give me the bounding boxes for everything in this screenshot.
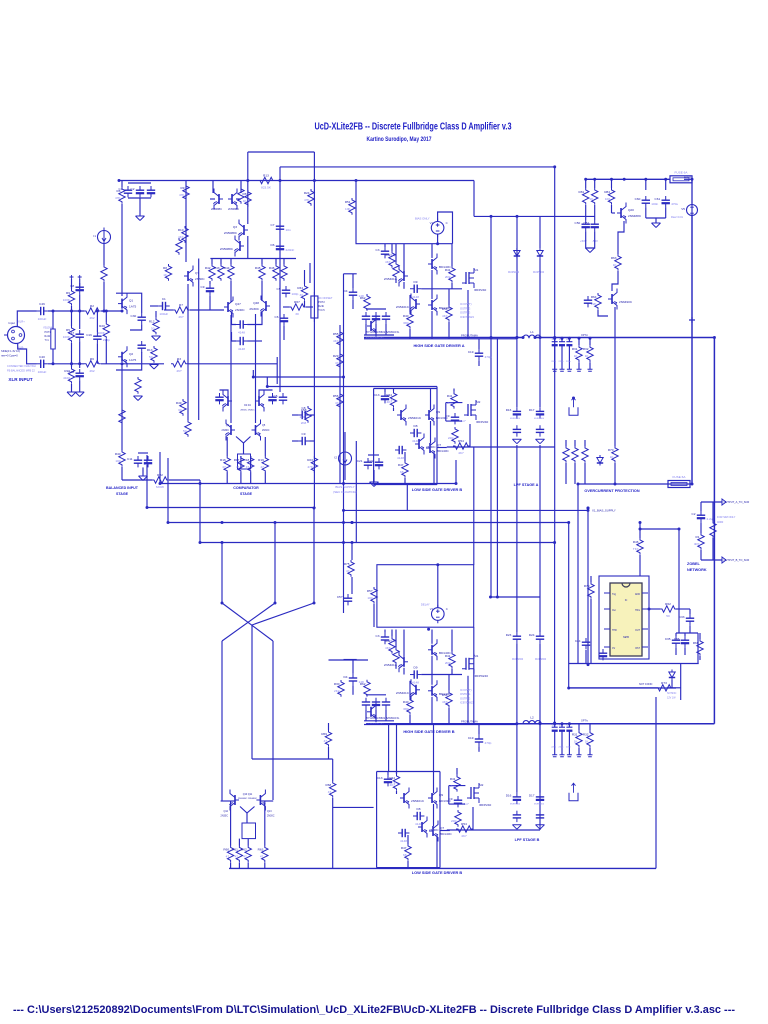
svg-text:R47: R47 (398, 463, 404, 467)
svg-text:47: 47 (243, 855, 247, 859)
svg-text:R54: R54 (461, 822, 467, 826)
svg-text:R68: R68 (326, 783, 332, 787)
svg-text:STAGE: STAGE (240, 492, 253, 496)
svg-text:2N6490C: 2N6490C (619, 300, 633, 304)
svg-text:V5: V5 (681, 207, 685, 211)
svg-text:IRFP240: IRFP240 (474, 288, 486, 292)
svg-text:R41: R41 (450, 777, 456, 781)
svg-text:R54: R54 (458, 439, 464, 443)
svg-text:40R0: 40R0 (717, 520, 724, 524)
svg-text:2N30C: 2N30C (267, 815, 275, 818)
svg-text:LPF STAGE A: LPF STAGE A (514, 483, 539, 487)
svg-text:R17: R17 (234, 458, 240, 462)
svg-text:MURS160: MURS160 (510, 418, 521, 420)
svg-text:R54: R54 (442, 693, 448, 697)
svg-text:100: 100 (367, 596, 372, 600)
svg-text:2N5088C: 2N5088C (220, 247, 234, 251)
svg-text:C: C (446, 607, 448, 611)
svg-text:IRFP240: IRFP240 (479, 803, 491, 807)
svg-text:47: 47 (328, 790, 332, 794)
svg-text:DELAY: DELAY (421, 603, 430, 607)
svg-text:M2: M2 (476, 400, 481, 404)
svg-text:R46: R46 (269, 266, 275, 270)
svg-text:2R2: 2R2 (447, 401, 453, 405)
svg-text:L1: L1 (530, 330, 534, 334)
svg-text:C3: C3 (376, 248, 380, 252)
svg-text:R6: R6 (90, 357, 94, 361)
svg-text:R13: R13 (147, 348, 153, 352)
svg-text:NETWORK: NETWORK (687, 568, 707, 572)
svg-text:2N5088C: 2N5088C (211, 207, 222, 211)
svg-text:R8: R8 (243, 192, 247, 196)
svg-text:100uF: 100uF (159, 312, 168, 316)
svg-text:MURS160: MURS160 (510, 804, 521, 806)
svg-text:OUTPUT_A_TO_SCR: OUTPUT_A_TO_SCR (724, 500, 750, 504)
svg-text:470u: 470u (671, 202, 678, 206)
svg-text:Fuse1: Fuse1 (684, 175, 692, 179)
svg-text:4148: 4148 (397, 456, 404, 460)
svg-text:L2: L2 (530, 716, 534, 720)
svg-text:R79: R79 (584, 584, 590, 588)
svg-text:100: 100 (605, 197, 610, 201)
svg-text:47: 47 (234, 855, 238, 859)
svg-text:YELENA: YELENA (43, 327, 53, 330)
svg-text:2R2: 2R2 (445, 275, 451, 279)
svg-text:2N5401C: 2N5401C (396, 305, 410, 309)
svg-text:R42: R42 (385, 639, 391, 643)
svg-text:Q2: Q2 (129, 352, 133, 356)
svg-text:2N5401C: 2N5401C (411, 799, 425, 803)
svg-text:R40: R40 (403, 700, 409, 704)
svg-text:(SEC FLOATING): (SEC FLOATING) (333, 490, 357, 494)
svg-text:2N50C: 2N50C (195, 277, 205, 281)
svg-text:4148: 4148 (238, 331, 245, 335)
svg-text:R62: R62 (241, 848, 247, 852)
svg-text:UcD-XLite2FB -- Discrete Fullb: UcD-XLite2FB -- Discrete Fullbridge Clas… (315, 121, 512, 133)
svg-text:C21: C21 (357, 459, 363, 463)
svg-text:220n: 220n (551, 361, 557, 363)
svg-text:4K7: 4K7 (333, 339, 339, 343)
svg-text:OPT-b: OPT-b (581, 720, 589, 723)
svg-text:BD140C: BD140C (437, 449, 449, 453)
svg-text:220n: 220n (566, 747, 572, 749)
svg-text:MURS360: MURS360 (535, 658, 547, 661)
svg-text:100K: 100K (63, 298, 71, 302)
svg-text:R62: R62 (360, 682, 366, 686)
svg-text:FB BALANCED MFB 22: FB BALANCED MFB 22 (7, 369, 35, 373)
svg-text:CV: CV (612, 648, 616, 650)
svg-text:R42: R42 (205, 266, 211, 270)
svg-text:100p: 100p (292, 292, 299, 296)
svg-text:C13: C13 (374, 393, 380, 397)
svg-text:Rser=0.01: Rser=0.01 (671, 215, 684, 219)
svg-text:Q12: Q12 (223, 810, 228, 813)
svg-text:R10: R10 (178, 228, 184, 232)
svg-text:4148: 4148 (412, 439, 419, 443)
svg-text:PROPUTAMA: PROPUTAMA (461, 334, 478, 338)
svg-text:HIGH SIDE GATE DRIVER B: HIGH SIDE GATE DRIVER B (403, 729, 454, 734)
svg-text:R8: R8 (163, 266, 167, 270)
svg-text:SCATRAP4.3V: SCATRAP4.3V (366, 722, 384, 726)
svg-text:OUT: OUT (635, 630, 640, 632)
svg-text:220n: 220n (566, 361, 572, 363)
svg-text:2R2: 2R2 (445, 661, 451, 665)
svg-text:C48: C48 (69, 370, 75, 374)
svg-text:Q13: Q13 (267, 810, 272, 813)
svg-text:OSTRIG: OSTRIG (460, 306, 470, 310)
svg-text:V1: V1 (430, 221, 434, 225)
svg-text:D17: D17 (529, 408, 535, 412)
svg-text:D24: D24 (529, 633, 535, 637)
svg-text:2N5088C 2N5088C: 2N5088C 2N5088C (238, 798, 258, 800)
svg-text:462: 462 (89, 369, 94, 373)
svg-text:50: 50 (666, 614, 670, 618)
svg-text:50: 50 (183, 429, 187, 433)
svg-text:MURS160: MURS160 (534, 418, 545, 420)
svg-text:C19: C19 (468, 736, 474, 740)
svg-text:D4 D4: D4 D4 (244, 405, 251, 407)
svg-text:47: 47 (346, 569, 350, 573)
svg-text:823.5K: 823.5K (261, 186, 272, 190)
svg-text:100K: 100K (63, 335, 71, 339)
svg-text:C8: C8 (302, 406, 306, 410)
svg-text:R73: R73 (661, 681, 667, 685)
svg-text:2N30C: 2N30C (262, 429, 270, 432)
svg-text:R44: R44 (386, 393, 392, 397)
svg-text:10K: 10K (345, 207, 351, 211)
svg-text:D16: D16 (506, 408, 512, 412)
svg-text:2N30C: 2N30C (235, 308, 245, 312)
svg-text:R45: R45 (255, 266, 261, 270)
svg-text:C51: C51 (584, 221, 590, 225)
svg-text:30: 30 (300, 293, 304, 297)
svg-text:220n: 220n (559, 361, 565, 363)
svg-text:C3: C3 (376, 634, 380, 638)
svg-text:D4: D4 (344, 675, 348, 679)
svg-text:100K: 100K (98, 331, 106, 335)
svg-text:R64: R64 (591, 295, 597, 299)
svg-text:R41: R41 (447, 394, 453, 398)
svg-text:R63: R63 (611, 256, 617, 260)
svg-text:4R7: 4R7 (694, 542, 700, 546)
svg-text:C1: C1 (162, 297, 166, 301)
svg-text:68: 68 (400, 470, 404, 474)
svg-text:470p: 470p (485, 355, 492, 359)
svg-text:47: 47 (260, 465, 264, 469)
svg-text:4K7: 4K7 (385, 646, 391, 650)
svg-text:PROPUTAMA: PROPUTAMA (461, 719, 478, 723)
svg-text:R18: R18 (244, 458, 250, 462)
svg-text:SOT23C: SOT23C (667, 692, 677, 695)
svg-text:4K7: 4K7 (442, 314, 448, 318)
svg-text:OPT-b: OPT-b (581, 334, 589, 337)
svg-text:R40: R40 (403, 314, 409, 318)
svg-text:470p: 470p (485, 741, 492, 745)
svg-text:2N30C: 2N30C (249, 307, 259, 311)
svg-text:NOT CONN: NOT CONN (639, 683, 652, 686)
svg-text:R55: R55 (333, 332, 339, 336)
svg-text:R60: R60 (223, 848, 229, 852)
svg-text:R34: R34 (297, 286, 303, 290)
svg-text:POT2: POT2 (318, 301, 325, 304)
svg-text:100uF: 100uF (38, 370, 47, 374)
svg-text:R84: R84 (604, 190, 610, 194)
svg-text:D6: D6 (271, 243, 275, 247)
svg-text:Q7: Q7 (437, 443, 441, 447)
svg-text:Q10 Q11: Q10 Q11 (243, 793, 253, 796)
svg-text:R12: R12 (149, 320, 155, 324)
svg-text:Rv4b: Rv4b (45, 335, 51, 338)
svg-text:OSTRIG: OSTRIG (460, 692, 470, 696)
svg-text:Q9: Q9 (436, 410, 440, 414)
svg-text:30: 30 (295, 312, 299, 316)
svg-text:220n: 220n (551, 747, 557, 749)
svg-text:R19: R19 (258, 458, 264, 462)
svg-text:12V 1W: 12V 1W (667, 697, 676, 700)
svg-text:4K7: 4K7 (461, 834, 467, 838)
svg-text:220n: 220n (559, 747, 565, 749)
svg-text:2N5401C: 2N5401C (396, 691, 410, 695)
svg-text:XLR+: XLR+ (18, 320, 25, 324)
svg-text:R63: R63 (258, 848, 264, 852)
svg-text:R70: R70 (608, 448, 614, 452)
svg-text:CONNECTED XLR2 WH: CONNECTED XLR2 WH (7, 364, 36, 368)
svg-text:Out: Out (612, 609, 616, 612)
svg-text:IC=OV(T): IC=OV(T) (460, 688, 472, 692)
svg-text:OSTRIG: OSTRIG (460, 311, 470, 315)
svg-text:Q47: Q47 (235, 302, 241, 306)
svg-text:Q9: Q9 (439, 793, 443, 797)
svg-text:R40: R40 (115, 452, 121, 456)
svg-text:2N5088C: 2N5088C (228, 207, 239, 211)
svg-text:RST: RST (635, 648, 640, 650)
svg-text:MURS160: MURS160 (534, 804, 545, 806)
svg-text:C1: C1 (119, 187, 123, 191)
svg-text:Q7: Q7 (440, 826, 444, 830)
svg-text:R32: R32 (583, 347, 589, 351)
svg-text:R1: R1 (696, 535, 700, 539)
svg-text:Q3: Q3 (233, 225, 237, 229)
svg-text:2N5401C: 2N5401C (384, 663, 398, 667)
svg-text:GND: GND (635, 594, 640, 596)
svg-text:22R: 22R (448, 436, 454, 440)
svg-text:680: 680 (403, 321, 408, 325)
svg-text:R81: R81 (579, 190, 585, 194)
svg-text:R43: R43 (214, 266, 220, 270)
svg-text:680: 680 (403, 707, 408, 711)
svg-text:FOR SIM ONLY: FOR SIM ONLY (717, 515, 736, 519)
svg-text:R56: R56 (333, 394, 339, 398)
svg-text:BYV26C 1N5819 BZX84C15L: BYV26C 1N5819 BZX84C15L (366, 717, 400, 720)
svg-text:C9: C9 (446, 414, 450, 418)
svg-text:--- C:\Users\212520892\Docume: --- C:\Users\212520892\Documents\From D\… (13, 1004, 735, 1016)
svg-text:ZOBEL: ZOBEL (687, 562, 701, 566)
svg-text:R24: R24 (304, 191, 310, 195)
svg-text:IC97/03923: IC97/03923 (460, 315, 474, 319)
svg-text:C35: C35 (665, 637, 671, 641)
svg-text:R67: R67 (294, 300, 300, 304)
svg-text:XLR INPUT: XLR INPUT (8, 377, 32, 382)
svg-text:10n: 10n (286, 228, 291, 232)
svg-text:BIAS ONLY: BIAS ONLY (415, 216, 430, 220)
svg-text:M2: M2 (479, 783, 484, 787)
svg-text:C5: C5 (277, 287, 281, 291)
svg-text:47: 47 (335, 361, 339, 365)
svg-text:22R: 22R (451, 819, 457, 823)
svg-text:R16: R16 (220, 458, 226, 462)
svg-text:R49: R49 (176, 401, 182, 405)
svg-text:R44: R44 (224, 266, 230, 270)
svg-text:R29: R29 (333, 354, 339, 358)
svg-text:C7: C7 (271, 223, 275, 227)
svg-text:C9: C9 (449, 797, 453, 801)
svg-text:100: 100 (115, 459, 120, 463)
svg-text:2N5401C: 2N5401C (408, 416, 422, 420)
svg-text:D9: D9 (414, 666, 418, 670)
svg-text:R42: R42 (385, 253, 391, 257)
svg-text:2N5088C: 2N5088C (224, 231, 238, 235)
svg-text:R54: R54 (442, 307, 448, 311)
svg-text:POT1: POT1 (45, 331, 52, 334)
svg-text:Q20: Q20 (628, 208, 634, 212)
svg-text:IC: IC (625, 599, 628, 602)
svg-text:R13: R13 (263, 174, 269, 178)
svg-text:2N30C: 2N30C (221, 815, 229, 818)
svg-text:220nF: 220nF (286, 248, 295, 252)
svg-text:D16: D16 (506, 794, 512, 798)
svg-text:D17: D17 (529, 794, 535, 798)
svg-text:47: 47 (246, 465, 250, 469)
svg-text:2K8: 2K8 (301, 421, 307, 425)
svg-text:IRFP240: IRFP240 (476, 420, 488, 424)
svg-text:C5?: C5? (337, 595, 343, 599)
svg-text:C46: C46 (39, 302, 45, 306)
svg-text:68: 68 (403, 853, 407, 857)
svg-text:47: 47 (335, 401, 339, 405)
svg-text:MOW: MOW (156, 485, 164, 489)
svg-text:1A75: 1A75 (129, 358, 137, 362)
svg-text:4148: 4148 (412, 681, 419, 685)
svg-text:Input: Input (9, 321, 16, 325)
svg-text:R75: R75 (344, 562, 350, 566)
svg-text:C9: C9 (201, 285, 205, 289)
svg-text:D9: D9 (414, 280, 418, 284)
svg-text:R5?: R5? (367, 589, 373, 593)
svg-text:47K: 47K (304, 198, 310, 202)
svg-text:D4: D4 (344, 289, 348, 293)
svg-text:BD140C: BD140C (440, 832, 452, 836)
svg-text:OUTPUT_B_TO_SCR: OUTPUT_B_TO_SCR (724, 558, 750, 562)
svg-text:T=1: T=1 (45, 339, 50, 342)
svg-text:C5: C5 (274, 394, 278, 398)
svg-text:47K: 47K (179, 193, 185, 197)
svg-text:R61: R61 (232, 848, 238, 852)
svg-text:C50: C50 (575, 221, 581, 225)
svg-text:R23: R23 (307, 458, 313, 462)
svg-text:C19: C19 (468, 350, 474, 354)
svg-text:Q48: Q48 (253, 301, 259, 305)
svg-text:47: 47 (324, 739, 328, 743)
svg-text:2.2u: 2.2u (707, 517, 713, 521)
svg-text:COMPARATOR: COMPARATOR (233, 486, 259, 490)
svg-text:R41: R41 (445, 654, 451, 658)
svg-text:OVERCURRENT PROTECTION: OVERCURRENT PROTECTION (584, 489, 640, 493)
svg-text:C22: C22 (368, 459, 374, 463)
svg-text:BYV26C 1N5819 BZX84C15L: BYV26C 1N5819 BZX84C15L (366, 331, 400, 334)
svg-text:M1: M1 (474, 268, 479, 272)
svg-text:R46: R46 (633, 540, 639, 544)
svg-text:C36: C36 (674, 637, 680, 641)
svg-text:TK7: TK7 (633, 547, 639, 551)
svg-text:C60: C60 (635, 197, 641, 201)
svg-text:R31: R31 (572, 347, 578, 351)
svg-text:X1_BIAS_SUPPLY: X1_BIAS_SUPPLY (592, 509, 616, 513)
svg-text:THR: THR (612, 630, 617, 632)
svg-text:2N30C 2N30C: 2N30C 2N30C (240, 410, 255, 412)
svg-text:100uF: 100uF (38, 317, 47, 321)
svg-text:rser=0 Cpar=0: rser=0 Cpar=0 (1, 354, 18, 358)
svg-text:C8: C8 (70, 284, 74, 288)
svg-text:4100: 4100 (63, 376, 70, 380)
svg-text:47: 47 (260, 855, 264, 859)
svg-text:47: 47 (226, 855, 230, 859)
svg-text:46?: 46? (178, 315, 183, 319)
svg-text:STAGE: STAGE (116, 492, 129, 496)
svg-text:C61: C61 (655, 197, 661, 201)
svg-text:R69: R69 (321, 732, 327, 736)
svg-text:C13: C13 (377, 776, 383, 780)
svg-text:V1: V1 (430, 607, 434, 611)
svg-text:C30: C30 (131, 314, 137, 318)
svg-text:R47: R47 (401, 846, 407, 850)
svg-text:2N6488C: 2N6488C (628, 214, 642, 218)
svg-text:2N30C: 2N30C (222, 429, 230, 432)
svg-text:Kartino Surodipo, May 2017: Kartino Surodipo, May 2017 (367, 136, 432, 143)
svg-text:MURS160: MURS160 (533, 271, 545, 274)
svg-text:47K: 47K (307, 465, 313, 469)
svg-text:FUSE 6A: FUSE 6A (675, 170, 689, 174)
svg-text:C11: C11 (127, 457, 133, 461)
svg-text:R51: R51 (345, 200, 351, 204)
svg-text:OSTRIG: OSTRIG (460, 696, 470, 700)
svg-text:R32: R32 (583, 733, 589, 737)
svg-text:R31: R31 (572, 733, 578, 737)
svg-text:IRFP9240: IRFP9240 (474, 674, 488, 678)
svg-text:4K7: 4K7 (386, 400, 392, 404)
svg-text:R62: R62 (360, 296, 366, 300)
svg-text:C6: C6 (275, 315, 279, 319)
svg-text:FUSE 6A: FUSE 6A (673, 475, 687, 479)
svg-text:HIGH SIDE GATE DRIVER A: HIGH SIDE GATE DRIVER A (413, 343, 464, 348)
svg-text:C33: C33 (679, 615, 685, 619)
svg-text:R2: R2 (90, 304, 94, 308)
svg-text:D8: D8 (417, 807, 421, 811)
svg-text:46?: 46? (176, 369, 181, 373)
svg-text:C9: C9 (302, 432, 306, 436)
svg-text:4148: 4148 (238, 347, 245, 351)
svg-text:C2: C2 (692, 512, 696, 516)
svg-text:R9: R9 (66, 291, 70, 295)
svg-text:C47: C47 (69, 331, 75, 335)
svg-text:R44: R44 (389, 776, 395, 780)
svg-text:LPF STAGE B: LPF STAGE B (515, 838, 540, 842)
svg-text:47K: 47K (115, 196, 121, 200)
svg-text:DC OFFSET: DC OFFSET (318, 297, 333, 300)
svg-text:4K7: 4K7 (385, 260, 391, 264)
svg-text:SCATRAP4.3V: SCATRAP4.3V (366, 336, 384, 340)
svg-text:50: 50 (151, 327, 155, 331)
svg-text:462: 462 (89, 316, 94, 320)
